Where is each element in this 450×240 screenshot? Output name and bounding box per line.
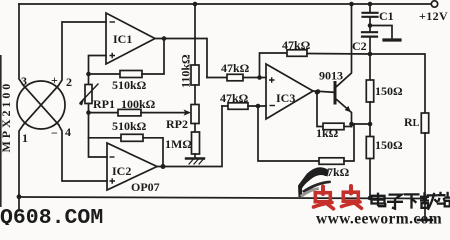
svg-text:OP07: OP07 — [131, 180, 160, 194]
node RP1 bottom / 100k row — [86, 110, 91, 115]
svg-text:IC2: IC2 — [112, 164, 131, 178]
node 150 ohm to bottom rail — [368, 196, 373, 201]
wire left edge from rail to bridge pin 3 — [19, 4, 24, 86]
svg-text:RP2: RP2 — [166, 117, 188, 131]
op-amp IC3 — [266, 64, 313, 119]
node IC3 non-inverting input — [257, 75, 262, 80]
svg-text:+12V: +12V — [419, 9, 448, 23]
IC3 inverting mark — [270, 105, 276, 107]
wire IC1 non-inverting input — [89, 56, 107, 75]
svg-text:510kΩ: 510kΩ — [112, 78, 147, 92]
svg-text:1: 1 — [22, 131, 28, 145]
wire IC3 output to base — [313, 91, 335, 92]
divider chain 110k from rail — [194, 4, 196, 65]
node rail-C1 junction — [368, 2, 373, 7]
svg-text:47kΩ: 47kΩ — [220, 91, 249, 105]
wire pin 4 riser to IC2 non-inverting input — [59, 125, 108, 182]
capacitor C1 — [369, 4, 371, 12]
ground RL bottom — [418, 219, 432, 222]
wire top +12V rail — [19, 3, 431, 5]
node IC2 output — [161, 164, 166, 169]
ground under 1M — [186, 157, 204, 159]
node IC1 feedback / RP1 top — [86, 72, 91, 77]
transistor Q1 9013 base bar — [334, 83, 337, 104]
svg-text:1MΩ: 1MΩ — [165, 137, 192, 151]
svg-text:C2: C2 — [352, 39, 367, 53]
resistor 47k positive feedback body — [287, 50, 307, 57]
svg-text:100kΩ: 100kΩ — [121, 97, 156, 111]
IC2 non-inverting mark — [110, 178, 116, 183]
resistor 47k to IC3 inverting input — [222, 105, 228, 107]
wire 100k row with wiper arrow to RP2 — [89, 112, 119, 114]
potentiometer RP2 body — [191, 105, 199, 124]
node IC3 output — [316, 89, 321, 94]
node bottom-left rail corner — [17, 194, 22, 199]
svg-text:−: − — [51, 126, 58, 140]
svg-text:150Ω: 150Ω — [375, 138, 403, 152]
node rail-110k junction — [193, 2, 198, 7]
IC1 non-inverting mark — [110, 53, 116, 58]
wire stub below bottom-left corner — [18, 198, 20, 211]
svg-text:47kΩ: 47kΩ — [321, 165, 350, 179]
node IC3 inverting input — [256, 104, 261, 109]
op-amp IC2 OP07 — [107, 143, 157, 190]
wire emitter node to 150 chain — [352, 123, 371, 125]
wire IC2 output row — [157, 106, 222, 167]
node rail-collector junction — [349, 2, 354, 7]
resistor 150 lower — [366, 137, 373, 159]
svg-text:47kΩ: 47kΩ — [282, 38, 311, 52]
resistor RL — [421, 113, 428, 133]
wire IC2 inverting riser — [89, 113, 108, 157]
wire IC1 output to riser — [155, 39, 207, 78]
wire collector — [336, 4, 352, 87]
wire pin 2 riser to IC1 inverting input — [59, 22, 107, 86]
ground branch right of C1 — [370, 26, 392, 38]
svg-text:47kΩ: 47kΩ — [221, 61, 250, 75]
wire bottom ground rail — [19, 197, 425, 199]
watermark swoosh logo — [298, 167, 329, 197]
IC2 inverting mark — [110, 156, 115, 158]
svg-text:4: 4 — [65, 125, 71, 139]
resistor 1M body — [192, 132, 200, 154]
wire bridge diagonal 2-1 — [24, 86, 59, 125]
node 150 ohm midpoint — [368, 122, 373, 127]
node output line junction — [368, 52, 373, 57]
IC1 inverting mark — [110, 21, 116, 23]
wire bridge pin 1 down to bottom rail — [19, 125, 24, 198]
svg-text:C1: C1 — [379, 9, 394, 23]
resistor 100k body — [118, 109, 141, 116]
resistor 47k to IC3 non-inverting input — [207, 77, 227, 79]
resistor 1k body — [323, 123, 344, 130]
IC3 non-inverting mark — [269, 77, 275, 82]
wire hysteresis riser down — [258, 106, 319, 161]
resistor 510k IC2 feedback body — [121, 134, 143, 141]
resistor 150 upper — [369, 54, 371, 80]
wire 47k positive feedback riser — [260, 53, 288, 78]
wire IC2 feedback row — [89, 137, 122, 139]
potentiometer RP1 — [88, 74, 90, 85]
wire output node row to RL — [307, 54, 425, 114]
svg-text:510kΩ: 510kΩ — [112, 119, 147, 133]
svg-text:2: 2 — [66, 75, 72, 89]
svg-text:RP1: RP1 — [93, 97, 115, 111]
svg-text:3: 3 — [21, 74, 27, 88]
op-amp IC1 — [106, 13, 155, 64]
wire IC1 feedback row left — [89, 73, 121, 75]
resistor 510k feedback body — [120, 71, 142, 78]
watermark red bug characters — [314, 186, 362, 209]
svg-text:Q608.COM: Q608.COM — [0, 206, 103, 225]
terminal +12V — [431, 1, 437, 7]
svg-text:IC3: IC3 — [276, 91, 295, 105]
resistor 1k riser — [317, 92, 323, 126]
svg-text:9013: 9013 — [319, 69, 343, 83]
svg-text:IC1: IC1 — [113, 32, 132, 46]
watermark chinese site name — [372, 192, 450, 210]
node IC1 output — [162, 36, 167, 41]
wire IC1 feedback row right — [142, 39, 164, 75]
scan edge artifact — [0, 55, 2, 207]
svg-text:MPX2100: MPX2100 — [0, 81, 13, 153]
svg-text:www.eeworm.com: www.eeworm.com — [316, 211, 442, 226]
wire emitter — [336, 99, 352, 127]
node C1-C2-ground junction — [368, 23, 373, 28]
svg-text:110kΩ: 110kΩ — [179, 54, 193, 88]
svg-text:1kΩ: 1kΩ — [316, 126, 339, 140]
node 1k tap on base wire — [315, 90, 320, 95]
node RL to bottom rail — [423, 196, 428, 201]
svg-text:150Ω: 150Ω — [375, 84, 403, 98]
resistor 47k bottom feedback body — [319, 158, 344, 165]
node emitter junction — [349, 122, 354, 127]
svg-text:RL: RL — [404, 115, 420, 129]
wire bridge diagonal 3-4 — [24, 86, 59, 125]
sensor MPX2100 bridge circle — [17, 81, 65, 129]
capacitor C2 — [362, 31, 377, 33]
svg-text:+: + — [51, 73, 58, 87]
